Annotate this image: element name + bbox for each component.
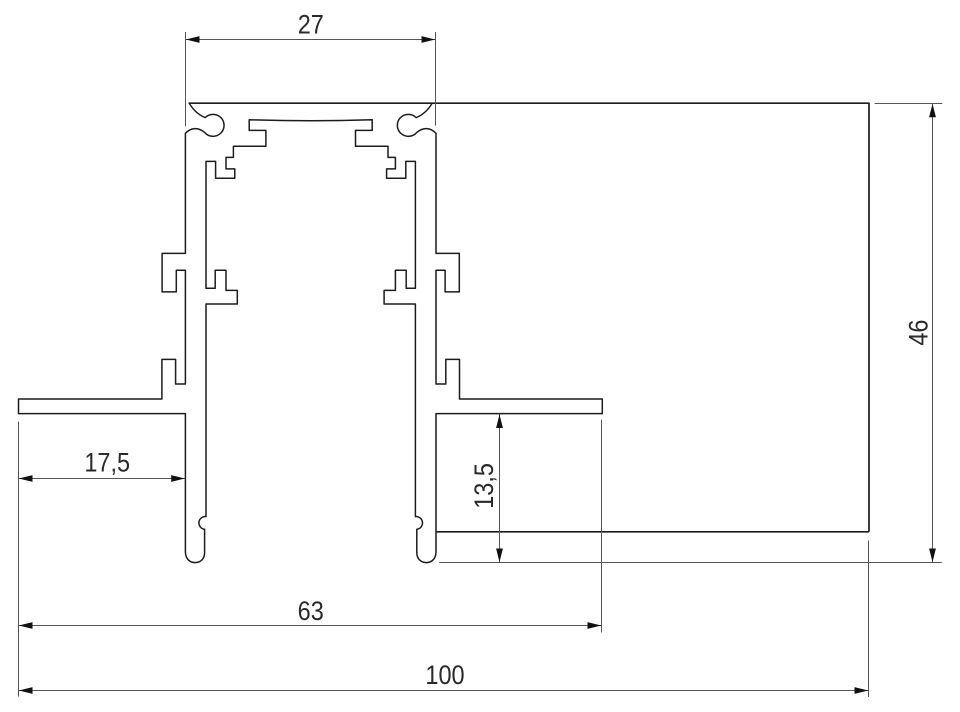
arrowhead 17,5 right — [171, 475, 185, 482]
profile top surface line — [189, 102, 869, 104]
extension line left shared (17.5 / 63 / 100) — [18, 422, 20, 697]
mounting niche rectangle right edge — [868, 103, 870, 532]
dimension line 63 — [19, 625, 602, 627]
arrowhead 13,5 top — [496, 414, 503, 428]
svg-text:17,5: 17,5 — [84, 448, 130, 478]
arrowhead 100 right — [855, 687, 869, 694]
extension line 27 left — [185, 32, 187, 126]
profile cross-section outline — [19, 103, 603, 562]
arrowhead 13,5 bottom — [496, 549, 503, 563]
arrowhead 46 bottom — [929, 549, 936, 563]
dimension line 13,5 — [499, 414, 501, 563]
svg-text:46: 46 — [904, 320, 934, 346]
dimension text 13,5 — [470, 463, 500, 509]
arrowhead 63 left — [19, 622, 33, 629]
dimension line 17,5 — [19, 478, 186, 480]
arrowhead 27 left — [186, 36, 200, 43]
dimension text 100 — [425, 661, 464, 691]
arrowhead 17,5 left — [19, 475, 33, 482]
dimension text 63 — [298, 597, 324, 627]
dimension line 100 — [19, 690, 869, 692]
mounting niche rectangle bottom edge — [436, 531, 869, 533]
dimension text 46 — [904, 320, 934, 346]
svg-text:63: 63 — [298, 597, 324, 627]
extension line 27 right — [435, 32, 437, 126]
arrowhead 27 right — [422, 36, 436, 43]
dimension line 46 — [932, 103, 934, 562]
svg-text:13,5: 13,5 — [470, 463, 500, 509]
extension line 46 top — [875, 103, 943, 105]
arrowhead 63 right — [588, 622, 602, 629]
extension line 100 right — [868, 541, 870, 698]
svg-text:100: 100 — [425, 661, 464, 691]
dimension line 27 — [186, 39, 436, 41]
dimension text 27 — [298, 10, 324, 40]
dimension text 17,5 — [84, 448, 130, 478]
svg-text:27: 27 — [298, 10, 324, 40]
extension line 63 right — [601, 420, 603, 633]
arrowhead 100 left — [19, 687, 33, 694]
arrowhead 46 top — [929, 104, 936, 118]
extension line 46 bottom / foot datum line — [439, 562, 942, 564]
